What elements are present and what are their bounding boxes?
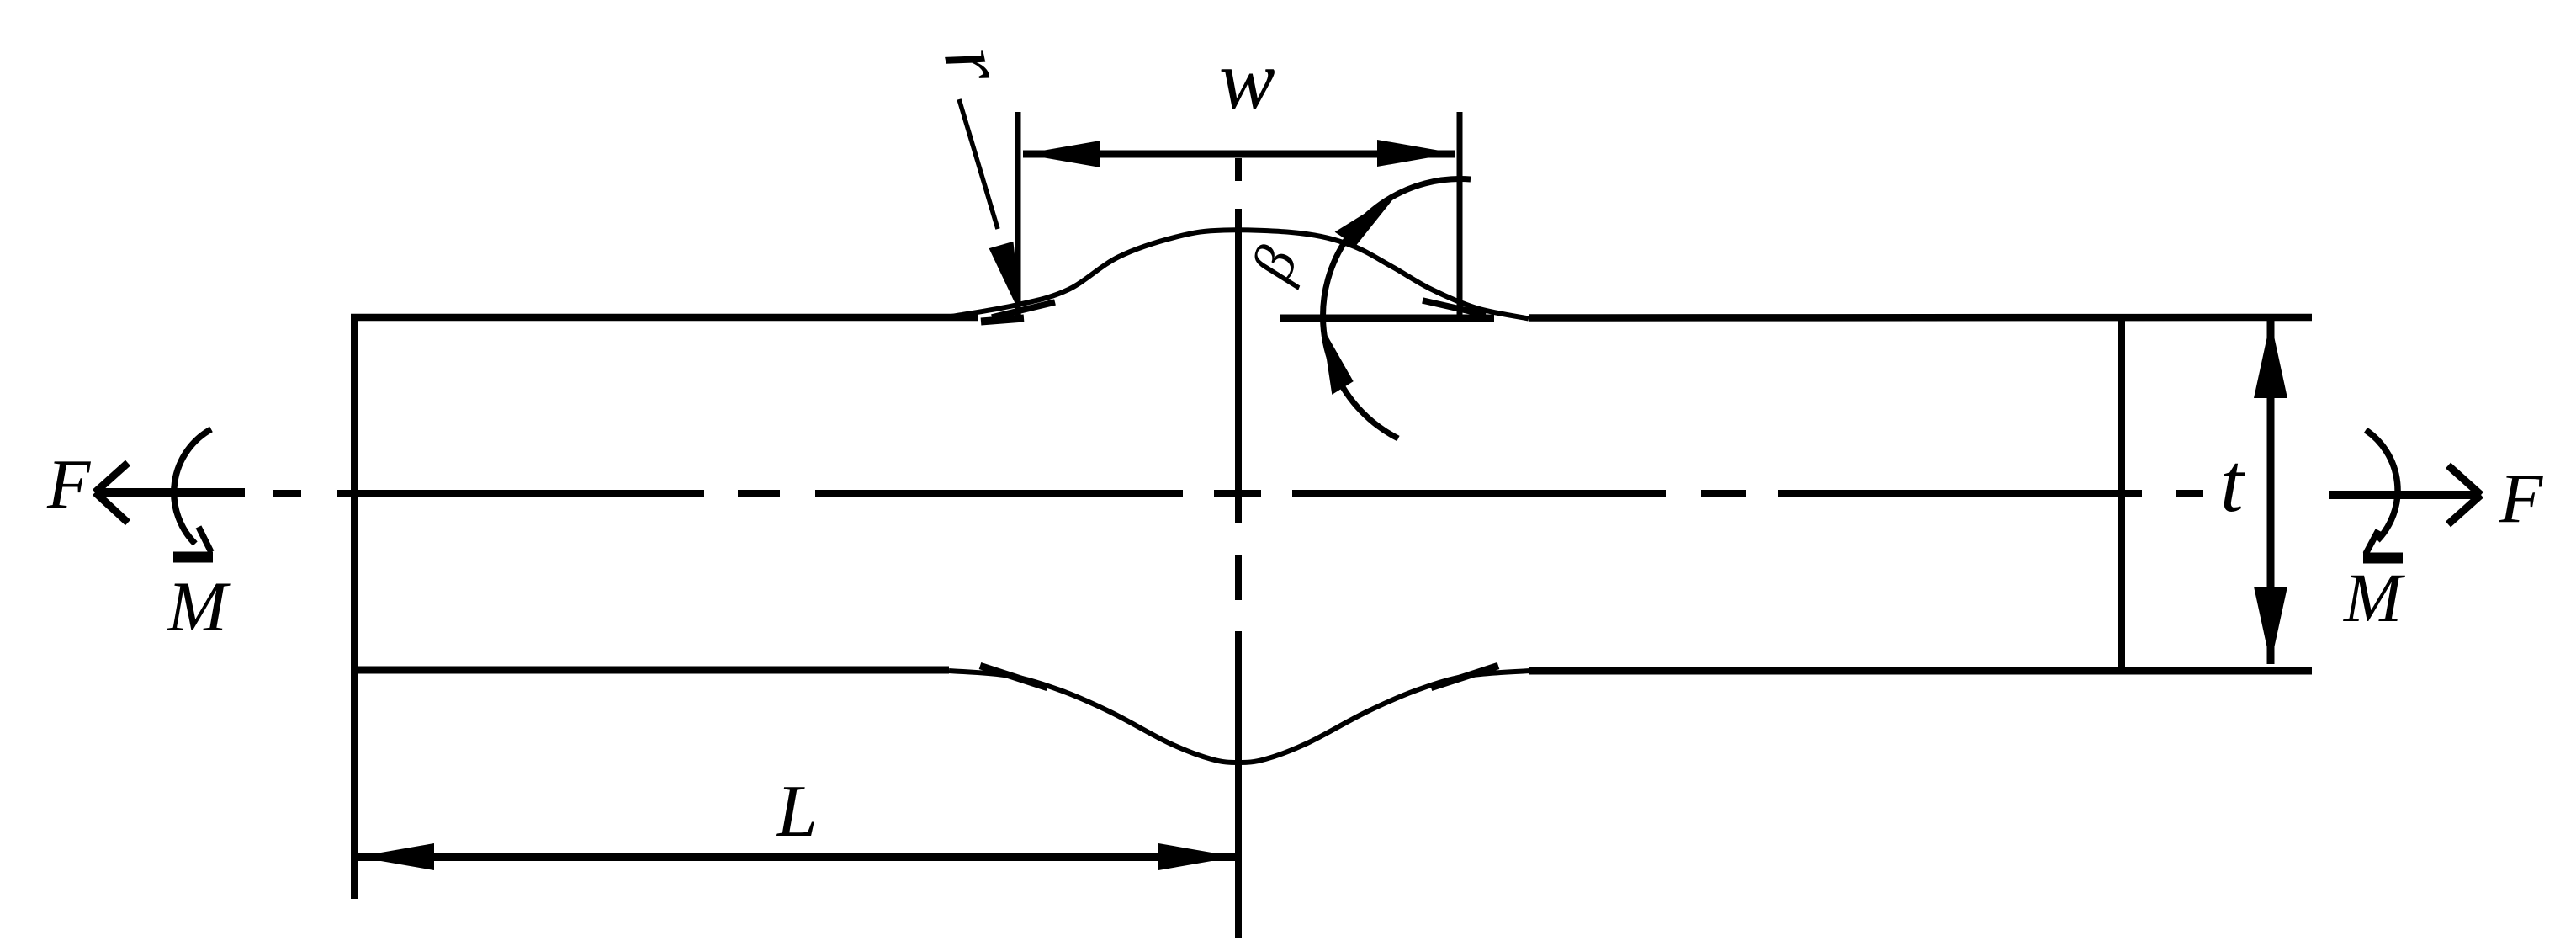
wire: L dimension line: [357, 853, 1236, 861]
node: t dimension bottom arrowhead: [2254, 587, 2287, 664]
node: L dimension right arrowhead: [1158, 843, 1236, 870]
svg-text:F: F: [46, 445, 92, 523]
wire: bottom edge left segment: [351, 667, 949, 674]
wire: top-left toe step segment: [981, 318, 1024, 322]
wire: bottom edge right segment: [1529, 667, 2312, 675]
wire: r leader line: [959, 99, 998, 229]
wire: top-right toe tick: [1423, 300, 1486, 315]
node: horizontal dash-dot centreline: [273, 490, 2203, 497]
node: L dimension left arrowhead: [357, 843, 434, 870]
svg-text:L: L: [775, 771, 818, 853]
wire: top edge left segment: [351, 314, 978, 322]
node: w dimension left arrowhead: [1023, 141, 1100, 167]
node: vertical dashed weld centreline: [1235, 158, 1242, 938]
node: r leader arrowhead: [989, 242, 1021, 316]
svg-text:M: M: [167, 567, 231, 646]
node: w dimension right arrowhead: [1377, 140, 1455, 167]
node: beta angle arc: [1323, 179, 1471, 438]
node: right force F arrow: [2329, 491, 2478, 499]
wire: weld centre section line at t dimension: [2118, 317, 2125, 671]
node: right moment arrowhead: [2366, 530, 2378, 554]
node: left force F arrow: [95, 488, 245, 497]
svg-text:t: t: [2220, 436, 2245, 529]
node: right moment M arc: [2366, 430, 2398, 540]
wire: bottom-left toe tick: [980, 666, 1047, 688]
wire: top edge right segment: [1529, 314, 2312, 322]
wire: bottom weld bead curve: [949, 671, 1529, 763]
svg-text:F: F: [2499, 460, 2544, 538]
wire: t dimension arrow shaft: [2267, 321, 2275, 664]
wire: w dimension line: [1023, 151, 1455, 158]
node: beta arc upper arrowhead: [1335, 193, 1398, 246]
wire: w dimension left extension line: [1015, 112, 1021, 322]
svg-text:M: M: [2343, 559, 2405, 636]
wire: left plate edge + L extension line: [351, 314, 358, 899]
wire: bottom-right toe tick: [1431, 666, 1498, 688]
svg-text:w: w: [1219, 33, 1275, 126]
node: left moment M arc: [174, 429, 211, 544]
wire: w dimension right extension line: [1457, 112, 1463, 318]
wire: top-left toe tick: [992, 302, 1055, 317]
wire: top weld bead curve: [946, 230, 1529, 318]
node: left moment arrowhead: [199, 527, 211, 552]
node: beta arc lower arrowhead: [1322, 326, 1354, 395]
node: t dimension top arrowhead: [2254, 321, 2287, 398]
wire: beta reference surface line under bead: [1280, 315, 1494, 322]
